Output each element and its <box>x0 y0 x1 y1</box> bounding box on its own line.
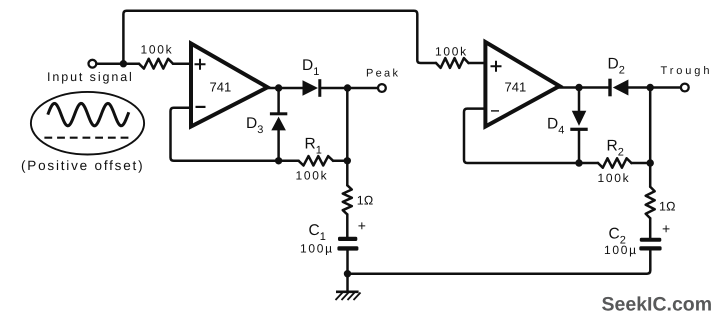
diode D3 <box>270 112 287 130</box>
node B (U2 output) <box>575 84 582 91</box>
diode D1 <box>303 79 322 97</box>
resistor R1 100k <box>299 156 334 165</box>
node A (U1 output) <box>275 84 282 91</box>
waveform sine wave <box>48 103 129 125</box>
wire 1 ohm to C1 <box>346 214 349 236</box>
wire R2 right to trough column <box>631 162 650 165</box>
wire bottom rail C1 node to C2 <box>348 250 651 274</box>
svg-text:100µ: 100µ <box>300 242 334 256</box>
wire D3 anode down to feedback node <box>277 130 280 160</box>
svg-text:(Positive offset): (Positive offset) <box>21 158 144 173</box>
wire resistor to op-amp U2 + input <box>469 62 486 65</box>
svg-text:100k: 100k <box>141 43 174 57</box>
node trough <box>647 84 654 91</box>
wire top feedback rail <box>123 11 436 64</box>
svg-text:100k: 100k <box>435 45 468 59</box>
wire op-amp U2 output to node B <box>558 86 608 89</box>
waveform dashed baseline <box>44 137 130 139</box>
svg-text:SeekIC.com: SeekIC.com <box>602 294 713 316</box>
wire D2 anode to trough node <box>628 86 650 89</box>
op-amp U2 741 <box>485 42 559 127</box>
diode D2 <box>608 79 628 97</box>
ground <box>336 292 361 300</box>
wire resistor to op-amp U1 + input <box>173 62 191 65</box>
Trough output terminal <box>681 84 689 92</box>
svg-text:100k: 100k <box>296 169 329 183</box>
wire R1 row down to 1 ohm resistor <box>346 161 349 186</box>
resistor 1 ohm right <box>646 187 655 219</box>
wire node A down to D3 <box>277 88 280 113</box>
node R2 right <box>647 159 654 166</box>
svg-text:741: 741 <box>505 80 527 95</box>
resistor 100k at U1 input <box>139 59 173 69</box>
node R1 right <box>344 157 351 164</box>
wire peak node to Peak terminal <box>348 87 377 90</box>
op-amp U1 741 <box>191 44 268 127</box>
wire D1 cathode to peak node <box>321 87 347 90</box>
wire input to resistor <box>97 62 139 65</box>
input terminal <box>89 60 97 68</box>
svg-text:1Ω: 1Ω <box>357 194 374 208</box>
capacitor C1 100u <box>337 237 358 251</box>
wire R2 row down to right 1 ohm resistor <box>649 163 652 187</box>
svg-text:1Ω: 1Ω <box>659 200 676 214</box>
node ground junction <box>344 270 351 277</box>
node input junction <box>120 60 127 67</box>
svg-text:741: 741 <box>210 80 232 95</box>
resistor 1 ohm left <box>343 185 352 214</box>
svg-text:+: + <box>358 218 366 234</box>
svg-text:100µ: 100µ <box>604 243 638 257</box>
wire U1 inverting feedback loop <box>171 108 299 161</box>
svg-text:Peak: Peak <box>366 68 400 80</box>
capacitor C2 100u <box>639 238 661 251</box>
svg-text:+: + <box>662 221 670 237</box>
wire U2 inverting feedback loop <box>464 109 598 163</box>
wire node B down to D4 <box>578 88 581 111</box>
svg-text:Trough: Trough <box>661 65 713 77</box>
waveform annotation ellipse <box>31 92 144 155</box>
node peak <box>344 84 351 91</box>
wire right 1 ohm to C2 <box>649 218 652 237</box>
svg-text:100k: 100k <box>598 171 631 185</box>
wire peak node down to R1 row <box>346 88 349 161</box>
Peak output terminal <box>378 84 386 92</box>
wire trough node to Trough terminal <box>650 86 680 89</box>
wire D4 cathode down to feedback node <box>578 131 581 163</box>
wire R1 right to peak column <box>333 160 347 163</box>
diode D4 <box>570 111 587 131</box>
wire C1 to ground node <box>346 251 349 274</box>
node feedback left <box>275 157 282 164</box>
resistor 100k at U2 input <box>436 58 469 68</box>
wire op-amp U1 output to node A <box>266 87 303 90</box>
svg-text:Input signal: Input signal <box>47 70 134 84</box>
node feedback right <box>575 159 582 166</box>
resistor R2 100k <box>598 158 631 167</box>
wire ground stub <box>346 274 349 292</box>
wire trough node down to R2 row <box>649 88 652 164</box>
